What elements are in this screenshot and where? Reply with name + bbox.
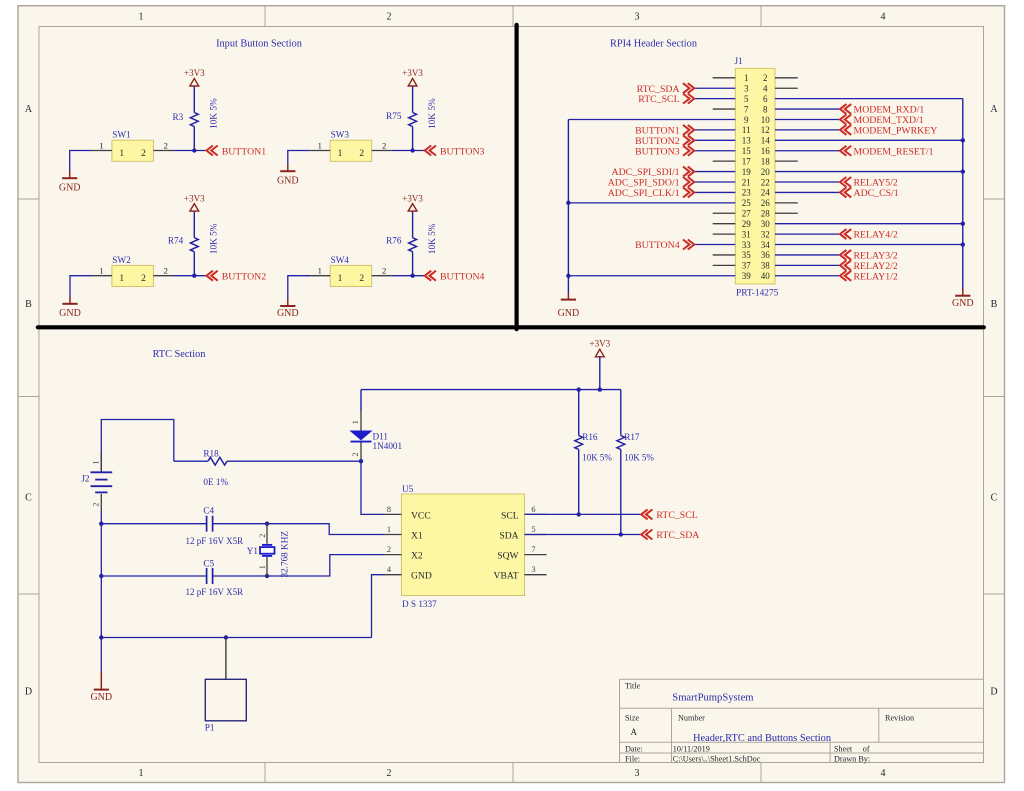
svg-text:SDA: SDA [499,531,518,542]
svg-text:BUTTON1: BUTTON1 [222,146,267,157]
svg-text:VBAT: VBAT [494,571,519,582]
svg-text:39: 39 [742,271,752,281]
connector P1 [205,638,247,733]
ground RTC [90,638,112,703]
junction Y1 bottom [265,574,269,578]
svg-text:7: 7 [744,104,749,114]
svg-text:RPI4 Header Section: RPI4 Header Section [610,39,697,50]
svg-text:GND: GND [277,308,299,319]
port BUTTON3 [425,146,485,158]
svg-text:2: 2 [763,73,768,83]
svg-text:SW4: SW4 [331,255,350,265]
svg-text:22: 22 [761,177,770,187]
svg-text:RELAY4/2: RELAY4/2 [854,230,898,241]
svg-text:1: 1 [318,266,322,276]
wire J1 pin 8 [775,108,840,110]
junction SW4 node [410,274,414,278]
svg-text:1: 1 [119,274,124,284]
power +3V3 R74 [184,193,205,211]
svg-text:GND: GND [952,298,974,309]
svg-text:BUTTON2: BUTTON2 [635,136,680,147]
wire J1 pin 16 [775,150,840,152]
svg-text:A: A [990,104,998,115]
svg-text:BUTTON2: BUTTON2 [222,272,267,283]
J1 unconnected pins right [775,78,798,213]
port RELAY2/2 [840,260,898,272]
port RELAY3/2 [840,250,898,262]
wire J1 pin 3 [694,87,735,89]
svg-text:GND: GND [59,182,81,193]
svg-text:1: 1 [338,274,343,284]
svg-text:X2: X2 [411,551,423,562]
wire SW4 gnd leg [288,276,311,300]
svg-text:R75: R75 [386,111,402,121]
svg-text:of: of [863,744,870,753]
svg-text:RTC_SDA: RTC_SDA [656,530,699,541]
svg-text:+3V3: +3V3 [590,338,611,348]
wire left GND bus [567,119,569,293]
svg-text:RELAY2/2: RELAY2/2 [854,261,898,272]
svg-text:GND: GND [411,571,432,582]
svg-text:Size: Size [625,714,639,723]
svg-text:RTC_SCL: RTC_SCL [656,510,697,521]
svg-text:Revision: Revision [885,714,914,723]
port BUTTON4 [425,271,485,283]
wire J1 pin 21 [694,181,735,183]
svg-text:Sheet: Sheet [834,744,853,753]
svg-text:GND: GND [277,175,299,186]
svg-text:32: 32 [761,229,770,239]
port MODEM_RXD/1 [840,104,924,116]
svg-text:X1: X1 [411,531,423,542]
power +3V3 R3 [184,68,205,86]
svg-text:RELAY3/2: RELAY3/2 [854,251,898,262]
svg-text:1: 1 [99,140,103,150]
svg-text:2: 2 [141,274,146,284]
port ADC_CS/1 [840,187,899,199]
svg-text:1: 1 [92,461,101,465]
wire SW3 output [392,150,425,152]
svg-text:P1: P1 [205,723,215,733]
ground left bus [558,293,580,319]
svg-text:2: 2 [141,149,146,159]
svg-text:Input Button Section: Input Button Section [216,39,302,50]
svg-text:U5: U5 [402,484,414,494]
port ADC_SPI_SDI/1 [612,167,695,179]
svg-text:VCC: VCC [411,510,431,521]
svg-text:38: 38 [761,261,771,271]
wire battery top [101,420,174,472]
svg-text:ADC_SPI_SDO/1: ADC_SPI_SDO/1 [608,178,680,189]
svg-text:1: 1 [318,140,322,150]
junction rail/+3V3 [598,387,602,391]
svg-text:27: 27 [742,209,752,219]
wire SW1 gnd leg [70,151,92,172]
svg-text:19: 19 [742,167,752,177]
wire J1 pin 12 [775,129,840,131]
wire J1 pin 24 [775,191,840,193]
junction R16/SCL [577,512,581,516]
switch SW1 [92,130,173,162]
switch SW3 [310,130,391,162]
wire C5 to X2 [213,555,384,576]
svg-text:15: 15 [742,146,752,156]
svg-text:RTC_SDA: RTC_SDA [637,84,680,95]
svg-text:GND: GND [90,692,112,703]
junction rail/P1 [224,635,228,639]
svg-text:File:: File: [625,755,640,764]
wire J1 pin 5 [694,98,735,100]
wire J1 pin 32 [775,233,840,235]
resistor R18 [203,449,228,488]
svg-text:+3V3: +3V3 [402,193,423,203]
port RTC_SCL [638,94,694,106]
svg-text:C: C [991,493,998,504]
svg-text:13: 13 [742,136,752,146]
svg-text:17: 17 [742,156,752,166]
svg-text:ADC_CS/1: ADC_CS/1 [854,188,899,199]
op-amp U5 DS1337 [384,484,547,609]
power +3V3 R75 [402,68,423,86]
svg-text:D: D [25,687,32,698]
svg-text:RTC Section: RTC Section [153,349,206,360]
wire C4 to X1 [213,524,384,535]
svg-text:R3: R3 [172,112,183,122]
junction [961,221,965,225]
wire D11 top [360,390,362,411]
svg-text:R17: R17 [624,432,640,442]
port BUTTON1 [207,146,267,158]
svg-text:2: 2 [359,149,364,159]
svg-text:D11: D11 [373,431,389,441]
J1 unconnected pins left [713,78,736,266]
wire J1 pin 13 [694,139,735,141]
svg-text:BUTTON4: BUTTON4 [440,272,485,283]
power +3V3 R76 [402,193,423,211]
junction battery/C4 [99,522,103,526]
wire J1 pin 10 [775,118,840,120]
svg-text:23: 23 [742,188,752,198]
resistor R17 [617,390,655,535]
svg-text:A: A [25,104,33,115]
junction SW3 node [410,148,414,152]
resistor R75 [386,86,438,151]
svg-text:10K 5%: 10K 5% [428,98,438,129]
svg-text:26: 26 [761,198,771,208]
wire J1 pin 14 [775,139,963,141]
svg-text:2: 2 [351,453,360,457]
wire rail to U5 GND [372,575,384,638]
wire +3V3 rail [361,389,621,391]
svg-text:ADC_SPI_SDI/1: ADC_SPI_SDI/1 [612,167,680,178]
wire C4 row left [101,523,206,525]
junction [961,169,965,173]
section divider horizontal [38,325,984,329]
svg-text:2: 2 [387,768,392,779]
wire J1 pin 40 [775,275,840,277]
svg-text:C5: C5 [203,558,214,568]
wire J1 pin 38 [775,264,840,266]
svg-text:24: 24 [761,188,771,198]
svg-text:2: 2 [382,140,386,150]
svg-text:10K 5%: 10K 5% [582,452,612,462]
section divider vertical [514,25,518,329]
svg-text:B: B [25,299,32,310]
svg-text:MODEM_TXD/1: MODEM_TXD/1 [854,115,924,126]
wire SCL [525,513,642,515]
svg-text:BUTTON3: BUTTON3 [635,146,680,157]
svg-text:1: 1 [258,565,267,569]
svg-text:Title: Title [625,682,641,691]
junction [566,274,570,278]
svg-text:GND: GND [59,308,81,319]
svg-text:18: 18 [761,156,771,166]
junction R17/SDA [619,532,623,536]
wire J1 pin 11 [694,129,735,131]
svg-text:8: 8 [387,505,391,514]
svg-text:PRT-14275: PRT-14275 [736,289,779,299]
svg-text:16: 16 [761,146,771,156]
junction Y1 top [265,522,269,526]
wire D11 to VCC [361,461,384,514]
junction [961,242,965,246]
svg-text:36: 36 [761,250,771,260]
svg-text:37: 37 [742,261,752,271]
port RTC_SCL [641,509,698,521]
svg-text:Drawn By:: Drawn By: [834,755,870,764]
svg-text:25: 25 [742,198,752,208]
junction rail left [99,635,103,639]
junction SW1 node [192,148,196,152]
svg-text:RELAY5/2: RELAY5/2 [854,178,898,189]
svg-text:1: 1 [387,525,391,534]
svg-text:3: 3 [531,565,535,574]
svg-text:RELAY1/2: RELAY1/2 [854,271,898,282]
svg-text:+3V3: +3V3 [402,68,423,78]
svg-text:10K 5%: 10K 5% [624,452,654,462]
capacitor C4 [186,505,244,546]
port RELAY1/2 [840,271,898,283]
svg-text:0E 1%: 0E 1% [203,477,228,487]
port RTC_SDA [637,83,695,95]
crystal Y1 [247,524,290,578]
port RELAY5/2 [840,177,898,189]
ground right bus [952,288,974,309]
battery J2 [81,452,112,511]
svg-text:Y1: Y1 [247,546,259,556]
ground SW4 [277,299,299,319]
wire J1 pin 23 [694,191,735,193]
svg-text:11: 11 [742,125,751,135]
svg-text:33: 33 [742,240,752,250]
wire battery to C4 row [100,511,102,524]
resistor R16 [575,390,613,515]
wire R18 left [174,460,208,462]
svg-text:1: 1 [139,768,144,779]
svg-text:GND: GND [558,308,580,319]
svg-text:R76: R76 [386,235,402,245]
svg-text:R16: R16 [582,432,598,442]
svg-text:R74: R74 [168,235,184,245]
svg-text:10K 5%: 10K 5% [210,223,220,254]
svg-text:2: 2 [164,266,168,276]
resistor R76 [386,211,438,276]
svg-text:ADC_SPI_CLK/1: ADC_SPI_CLK/1 [608,188,680,199]
svg-text:BUTTON1: BUTTON1 [635,126,680,137]
title block [620,679,984,763]
wire J1 pin 20 [775,171,963,173]
svg-text:3: 3 [744,84,749,94]
wire SDA [525,534,642,536]
junction D11/R18 [359,459,363,463]
svg-text:3: 3 [635,12,640,23]
wire J1 pin 25 [568,202,735,204]
svg-text:C: C [25,493,32,504]
svg-text:D: D [990,687,997,698]
wire bottom rail [100,576,102,638]
svg-text:SCL: SCL [501,510,519,521]
svg-text:1: 1 [338,149,343,159]
svg-text:1: 1 [99,266,103,276]
svg-text:12 pF 16V X5R: 12 pF 16V X5R [186,536,244,546]
port MODEM_RESET/1 [840,146,934,158]
svg-text:R18: R18 [203,449,219,459]
diode D11 [351,411,403,461]
wire J1 pin 34 [775,244,963,246]
svg-text:2: 2 [258,534,267,538]
ground SW1 [59,171,81,193]
wire J1 pin 9 [568,118,735,120]
svg-text:SmartPumpSystem: SmartPumpSystem [672,693,754,704]
wire SW3 gnd leg [288,151,311,165]
svg-text:10K 5%: 10K 5% [428,223,438,254]
svg-text:MODEM_RESET/1: MODEM_RESET/1 [854,146,934,157]
port ADC_SPI_SDO/1 [608,177,694,189]
svg-text:2: 2 [387,545,391,554]
resistor R3 [172,86,219,151]
svg-text:+3V3: +3V3 [184,193,205,203]
wire J1 pin 22 [775,181,840,183]
wire right GND bus [962,99,964,289]
junction battery/C5 [99,574,103,578]
svg-text:1: 1 [139,12,144,23]
wire +3V3 stem [599,357,601,390]
svg-text:1: 1 [351,420,360,424]
svg-text:1N4001: 1N4001 [373,441,403,451]
svg-text:1: 1 [744,73,749,83]
svg-text:D S 1337: D S 1337 [402,599,437,609]
port MODEM_TXD/1 [840,114,924,126]
switch SW2 [92,255,173,287]
wire J1 pin 6 [775,98,963,100]
svg-text:9: 9 [744,115,749,125]
svg-text:J2: J2 [81,474,90,484]
svg-text:29: 29 [742,219,752,229]
svg-text:5: 5 [531,525,535,534]
svg-text:2: 2 [382,266,386,276]
svg-text:2: 2 [359,274,364,284]
svg-text:10: 10 [761,115,771,125]
svg-text:8: 8 [763,104,768,114]
svg-text:A: A [631,727,638,737]
svg-text:2: 2 [387,12,392,23]
wire SW1 output [173,150,206,152]
wire SW2 gnd leg [70,276,92,297]
wire J1 pin 30 [775,223,963,225]
svg-text:MODEM_PWRKEY: MODEM_PWRKEY [854,126,938,137]
junction SW2 node [192,274,196,278]
svg-text:4: 4 [881,12,886,23]
wire SW4 output [392,275,425,277]
svg-text:14: 14 [761,136,771,146]
power +3V3 RTC [590,338,611,356]
svg-text:4: 4 [881,768,886,779]
svg-text:BUTTON4: BUTTON4 [635,240,680,251]
svg-text:Date:: Date: [625,744,643,753]
svg-text:40: 40 [761,271,771,281]
junction rail/R16 [577,387,581,391]
port MODEM_PWRKEY [840,125,937,137]
svg-text:MODEM_RXD/1: MODEM_RXD/1 [854,105,925,116]
svg-text:Number: Number [678,714,705,723]
junction [566,201,570,205]
ground SW2 [59,297,81,319]
svg-text:RTC_SCL: RTC_SCL [638,94,679,105]
svg-text:31: 31 [742,229,751,239]
svg-text:28: 28 [761,209,771,219]
svg-text:B: B [991,299,998,310]
svg-text:7: 7 [531,545,535,554]
svg-text:6: 6 [763,94,768,104]
port RELAY4/2 [840,229,898,241]
wire J1 pin 15 [694,150,735,152]
connector J1 [735,56,779,298]
svg-text:2: 2 [164,140,168,150]
svg-text:SW1: SW1 [112,130,131,140]
svg-text:2: 2 [92,503,101,507]
switch SW4 [310,255,391,287]
svg-text:10/11/2019: 10/11/2019 [673,744,710,753]
wire C5 row left [100,524,102,576]
wire J1 pin 39 [568,275,735,277]
svg-text:30: 30 [761,219,771,229]
svg-text:1: 1 [119,149,124,159]
svg-text:Header,RTC and Buttons Section: Header,RTC and Buttons Section [693,733,832,744]
svg-text:4: 4 [763,84,768,94]
svg-text:C:\Users\..\Sheet1.SchDoc: C:\Users\..\Sheet1.SchDoc [673,755,761,764]
svg-text:C4: C4 [203,505,214,515]
svg-text:12 pF 16V X5R: 12 pF 16V X5R [186,587,244,597]
svg-text:BUTTON3: BUTTON3 [440,146,485,157]
svg-text:3: 3 [635,768,640,779]
capacitor C5 [186,558,244,597]
svg-text:SW3: SW3 [331,130,350,140]
port BUTTON4 [635,240,694,252]
svg-text:12: 12 [761,125,770,135]
wire R18 right [227,460,361,462]
port BUTTON2 [635,135,694,147]
svg-text:35: 35 [742,250,752,260]
svg-text:10K 5%: 10K 5% [210,98,220,129]
wire J1 pin 19 [694,171,735,173]
svg-text:J1: J1 [735,56,744,66]
svg-text:20: 20 [761,167,771,177]
svg-text:SQW: SQW [497,551,519,562]
svg-text:5: 5 [744,94,749,104]
wire J1 pin 36 [775,254,840,256]
svg-text:6: 6 [531,505,535,514]
wire J1 pin 33 [694,244,735,246]
